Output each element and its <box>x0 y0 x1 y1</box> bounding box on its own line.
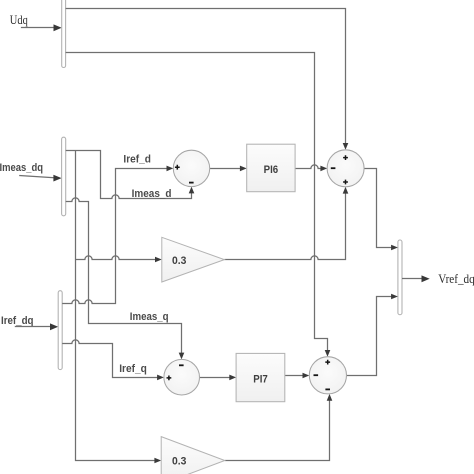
svg-text:0.3: 0.3 <box>172 255 186 267</box>
svg-text:Iref_q: Iref_q <box>119 363 147 375</box>
svg-text:0.3: 0.3 <box>172 455 186 467</box>
wire PI6 to sum S2 left <box>295 165 327 171</box>
wire Imeas_d branch down to gain G2 <box>76 151 162 464</box>
wire Udq d-component to sum S2 top <box>66 9 349 150</box>
wire Imeas_d branch to gain G1 <box>76 256 162 262</box>
mux bar Vref_dq <box>398 240 402 315</box>
wire Imeas_d from demux to sum S1 bottom <box>66 151 195 199</box>
svg-text:Imeas_q: Imeas_q <box>130 311 169 323</box>
svg-text:Vref_dq: Vref_dq <box>438 271 474 286</box>
wire sum S4 to mux input 2 <box>347 294 398 376</box>
svg-text:PI6: PI6 <box>264 164 279 176</box>
block PI7 <box>236 353 285 401</box>
svg-text:Imeas_d: Imeas_d <box>132 188 172 200</box>
wire sum S1 to PI6 <box>210 166 247 172</box>
sum junction S2 (d-axis output) <box>327 150 364 187</box>
sum junction S1 (Iref_d - Imeas_d) <box>173 150 209 186</box>
gain G2 (0.3) <box>161 437 225 474</box>
sum junction S4 (q-axis output) <box>309 357 346 394</box>
svg-text:Iref_d: Iref_d <box>123 153 150 165</box>
wire sum S3 to PI7 <box>200 375 237 381</box>
wire sum S2 to mux input 1 <box>364 169 398 251</box>
demux bar Udq <box>62 0 66 68</box>
wire Udq q-component to sum S4 top <box>66 53 331 357</box>
wire gain G1 to sum S2 bottom <box>224 187 348 260</box>
input arrow Udq <box>21 24 62 31</box>
wire Iref_q from demux to sum S3 left <box>62 340 164 380</box>
demux bar Iref_dq <box>58 291 62 370</box>
sum junction S3 (Iref_q - Imeas_q) <box>164 359 200 395</box>
svg-text:Iref_dq: Iref_dq <box>1 315 34 327</box>
wire mux output Vref_dq <box>402 275 430 282</box>
wire PI7 to sum S4 left <box>285 373 310 379</box>
input arrow Iref_dq <box>15 323 58 330</box>
demux bar Imeas_dq <box>62 137 66 216</box>
input arrow Imeas_dq <box>19 175 61 182</box>
svg-text:Imeas_dq: Imeas_dq <box>0 162 43 174</box>
svg-text:Udq: Udq <box>10 12 28 27</box>
wire Iref_d from demux to sum S1 left <box>62 166 173 304</box>
svg-text:PI7: PI7 <box>253 373 268 385</box>
gain G1 (0.3) <box>162 237 225 282</box>
block PI6 <box>247 144 295 192</box>
wire gain G2 to sum S4 bottom <box>225 394 332 461</box>
wire Imeas_q from demux to sum S3 top <box>66 198 185 359</box>
